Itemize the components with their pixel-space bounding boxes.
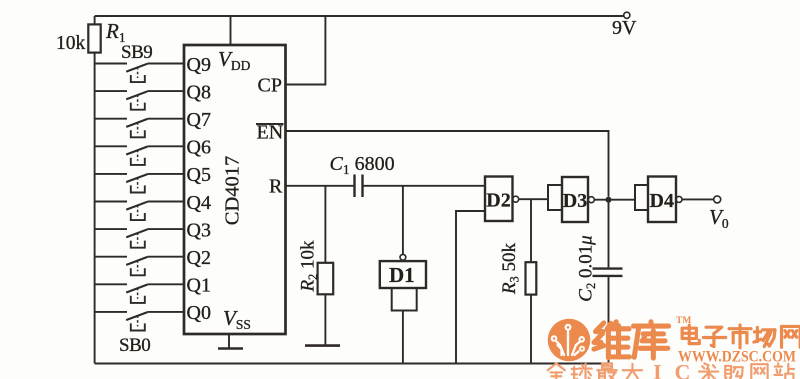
pushbutton switch (Q5 row) [95, 174, 184, 193]
svg-text:R3 50k: R3 50k [499, 242, 522, 295]
svg-text:CP: CP [258, 75, 282, 97]
wire: EN pin to C2/D3-D4 node [286, 131, 609, 197]
resistor R1 10k [88, 16, 100, 53]
resistor R3 50k [526, 199, 537, 363]
wire: D2 output to D3 input [519, 198, 548, 200]
svg-text:D1: D1 [389, 263, 415, 287]
svg-text:C1 6800: C1 6800 [330, 153, 395, 177]
pushbutton switch (Q2 row) [95, 257, 184, 276]
svg-text:CD4017: CD4017 [222, 156, 244, 225]
V0 output terminal [714, 196, 721, 203]
watermark text: electronics market site name [682, 325, 800, 348]
pushbutton switch (Q8 row) [95, 91, 184, 110]
wire: +9V top supply rail [95, 15, 624, 17]
wire: D3 output to D4 input [594, 199, 635, 201]
svg-text:10k: 10k [56, 33, 86, 54]
ground (VSS) [218, 334, 243, 349]
resistor R2 10k [318, 186, 334, 345]
gate D3 [548, 177, 594, 222]
pushbutton switch SB9 [95, 64, 184, 83]
svg-text:D2: D2 [486, 190, 510, 212]
gate D2 [485, 177, 519, 222]
wire: CP pin to 9V rail [286, 16, 326, 85]
svg-text:9V: 9V [612, 17, 637, 39]
wire: C2 to bottom bus [608, 277, 610, 364]
wire: R row node to D1 output bubble [402, 186, 404, 255]
pushbutton switch (Q6 row) [95, 146, 184, 165]
svg-text:D3: D3 [563, 190, 587, 212]
wire: D1 input to bottom loop [402, 311, 404, 364]
wire: junction down to C2 [608, 200, 610, 268]
ground (R2) [305, 344, 340, 347]
gate D1 (inverter, output bubble on top) [380, 254, 426, 310]
svg-text:Q8: Q8 [187, 81, 211, 103]
wire: D4 output to V0 terminal [682, 198, 714, 200]
svg-text:D4: D4 [650, 190, 674, 212]
svg-text:V0: V0 [709, 205, 729, 231]
svg-text:VSS: VSS [223, 306, 251, 332]
pushbutton switch (Q4 row) [95, 202, 184, 221]
wire: switch common bus (left vertical) [94, 53, 96, 364]
node: EN/C2 junction dot [606, 197, 612, 203]
svg-text:Q4: Q4 [187, 192, 211, 214]
svg-text:Q3: Q3 [187, 219, 211, 241]
svg-text:Q9: Q9 [187, 54, 211, 76]
capacitor C2 0.01u [593, 269, 623, 276]
wire: C1 right plate to D2 input [363, 185, 486, 187]
svg-text:Q7: Q7 [187, 109, 211, 131]
gate D4 [635, 177, 682, 223]
pushbutton switch (Q3 row) [95, 229, 184, 248]
svg-text:C: C [675, 360, 691, 379]
wire: bottom bus up to D2 lower input [456, 211, 485, 364]
pushbutton switch (Q7 row) [95, 119, 184, 138]
pin label EN (active-low, overline) [256, 122, 284, 144]
wire: VDD to 9V rail [230, 16, 232, 45]
capacitor C1 [355, 175, 363, 198]
pushbutton switch (Q1 row) [95, 284, 184, 303]
svg-text:Q1: Q1 [187, 275, 211, 297]
svg-text:Q0: Q0 [187, 302, 211, 324]
watermark text: WEI KU (brand) [594, 322, 669, 358]
svg-text:C2 0.01μ: C2 0.01μ [576, 235, 599, 301]
svg-text:Q2: Q2 [187, 247, 211, 269]
wire: bottom feedback bus [95, 363, 609, 365]
svg-text:Q5: Q5 [187, 164, 211, 186]
watermark logo: orange circle with circuit tree [548, 319, 591, 362]
9V supply terminal [612, 12, 637, 39]
IC U1 CD4017 body [184, 45, 286, 334]
svg-text:Q6: Q6 [187, 137, 211, 159]
svg-text:I: I [653, 360, 662, 379]
svg-text:VDD: VDD [218, 47, 251, 73]
svg-text:SB0: SB0 [119, 335, 150, 356]
svg-text:R: R [269, 176, 283, 198]
watermark text: bottom slogan row [547, 360, 794, 379]
svg-text:SB9: SB9 [121, 42, 152, 63]
pushbutton switch SB0 [95, 312, 184, 331]
wire: R pin to C1 left plate [286, 185, 355, 187]
svg-text:R2 10k: R2 10k [298, 240, 321, 293]
